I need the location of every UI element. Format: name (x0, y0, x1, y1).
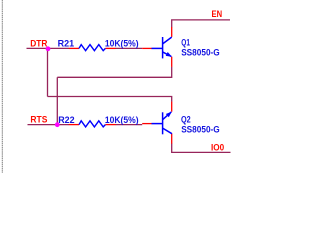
wire RTS left segment (28, 124, 70, 126)
wire EN net (172, 20, 230, 27)
resistor R22 body (79, 121, 105, 127)
transistor Q1 emitter arrow (166, 52, 172, 57)
resistor R21 pins (69, 47, 79, 49)
transistor Q2 symbol (mirrored) (152, 112, 172, 134)
svg-text:10K(5%): 10K(5%) (105, 115, 139, 125)
wire DTR left segment (27, 47, 70, 49)
svg-text:DTR: DTR (30, 38, 48, 48)
sheet border (dashed) (1, 0, 3, 173)
wire R21 to Q1 base (115, 47, 142, 49)
wire RTS vertical up (56, 77, 58, 124)
svg-text:RTS: RTS (30, 115, 47, 125)
wire R22 to Q2 base (115, 124, 142, 126)
wire upper horizontal RTS to Q1 emitter (57, 67, 171, 78)
svg-text:Q1: Q1 (181, 38, 190, 48)
wire IO0 net (172, 144, 231, 153)
transistor Q1 symbol (152, 37, 172, 58)
svg-text:10K(5%): 10K(5%) (105, 39, 139, 49)
junction node DTR (46, 46, 51, 51)
svg-text:IO0: IO0 (211, 143, 224, 153)
junction node RTS (55, 122, 60, 127)
svg-text:Q2: Q2 (181, 115, 191, 125)
resistor R21 body (79, 45, 105, 51)
svg-text:R22: R22 (58, 115, 74, 125)
svg-text:EN: EN (212, 9, 223, 19)
wire DTR vertical down (47, 48, 49, 96)
transistor Q1 pins (142, 47, 152, 49)
svg-text:SS8050-G: SS8050-G (181, 124, 220, 134)
svg-text:R21: R21 (58, 39, 75, 49)
wire lower horizontal DTR to Q2 emitter (48, 97, 172, 102)
transistor Q2 emitter arrow (166, 112, 172, 118)
resistor R22 pins (69, 124, 79, 126)
transistor Q2 pins (142, 123, 152, 125)
svg-text:SS8050-G: SS8050-G (181, 47, 220, 57)
